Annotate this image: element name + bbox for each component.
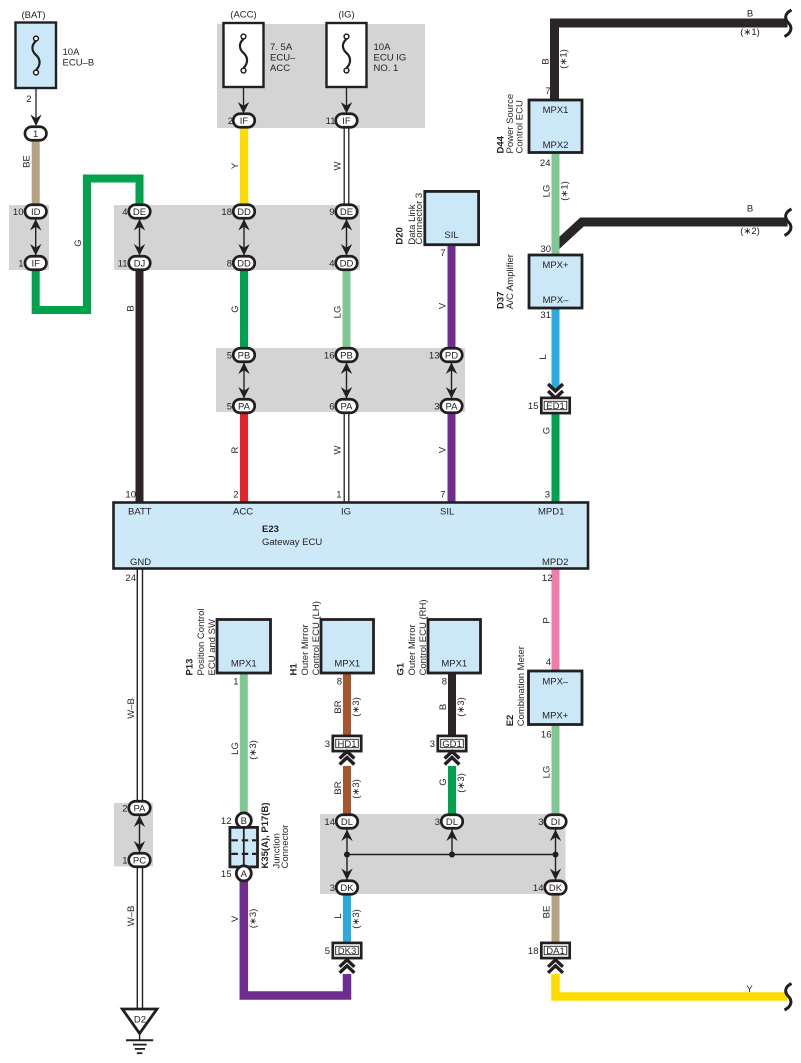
svg-text:G: G [438,778,449,785]
wire BE fuse BAT to ID [32,140,40,207]
svg-text:A: A [241,869,248,880]
label BR (*3) lower [333,779,362,799]
svg-text:IG: IG [341,507,351,518]
arrow DL3 to bus [446,830,457,855]
gray panel: connector band PA/PC [114,803,153,867]
junction dot left [344,852,350,858]
ground D2 [122,1009,157,1053]
svg-text:18: 18 [528,946,539,957]
svg-text:7: 7 [440,248,445,259]
connector oval DI pin3 [538,815,566,829]
svg-text:10: 10 [13,207,24,218]
connector oval DL pin3 [435,815,463,829]
wire G loop IF to DE [36,179,140,311]
ECU D37 A/C Amplifier [496,244,582,321]
svg-text:MPX1: MPX1 [231,659,257,670]
wire L (*3) DK to DK3 [343,893,351,944]
svg-text:IF: IF [342,116,351,127]
wire BR (*3) H1 to HD1 [343,672,351,737]
connector oval PC pin1 [122,853,150,867]
svg-text:BE: BE [542,906,553,919]
arrow DI3 to bus [550,830,561,855]
wire R PA to gateway ACC [240,411,248,504]
wire B (*1) to D44 MPX1 [555,23,788,101]
svg-text:LG: LG [542,185,553,198]
svg-text:11: 11 [326,116,336,127]
chevrons above ED1 [548,384,563,398]
svg-text:(∗3): (∗3) [456,697,467,717]
svg-text:13: 13 [429,351,440,362]
wire B DJ to gateway BATT [136,268,144,504]
svg-text:3: 3 [435,817,440,828]
svg-text:8: 8 [442,677,447,688]
svg-text:(BAT): (BAT) [21,10,45,21]
svg-text:MPD2: MPD2 [542,557,568,568]
connector oval IF pin2 [233,114,255,128]
svg-text:(∗3): (∗3) [351,909,362,929]
svg-text:MPX–: MPX– [542,677,569,688]
svg-text:4: 4 [329,259,334,270]
svg-text:Gateway ECU: Gateway ECU [262,537,322,548]
svg-text:DE: DE [133,207,146,218]
svg-text:PA: PA [446,402,459,413]
svg-text:R: R [230,446,241,453]
svg-text:3: 3 [545,490,550,501]
svg-text:PA: PA [238,402,251,413]
svg-text:5: 5 [325,946,330,957]
svg-text:DI: DI [551,817,561,828]
wire P gateway MPD2 to E2 [552,568,560,672]
fuse ACC [224,10,297,128]
svg-text:B: B [747,9,753,20]
svg-text:Control ECU (RH): Control ECU (RH) [418,599,429,675]
svg-text:14: 14 [324,817,335,828]
svg-text:9: 9 [329,207,334,218]
connector pair ID/IF arrows [30,219,41,256]
arrow DL14 to bus [341,830,352,855]
svg-text:W: W [333,445,344,454]
svg-text:PB: PB [238,351,251,362]
svg-text:SIL: SIL [440,507,454,518]
wire LG DD to PB [343,268,351,350]
wire BE DK to DA1 [552,893,560,944]
svg-text:LG: LG [333,306,344,319]
svg-text:PC: PC [133,856,146,867]
svg-text:BATT: BATT [128,507,152,518]
svg-text:DD: DD [340,259,354,270]
svg-text:(∗1): (∗1) [560,181,571,201]
svg-text:L: L [538,354,549,359]
svg-text:MPX–: MPX– [543,295,570,306]
fuse IG [326,10,407,128]
break symbol Y right edge [785,984,792,1011]
svg-text:W–B: W–B [126,906,137,927]
gray panel: connector band DE/DJ DD/DD DE/DD [114,205,360,270]
break symbol B2 right edge [785,209,792,236]
label B (*1) vertical [541,49,570,69]
svg-text:E23: E23 [262,524,279,535]
svg-text:G: G [542,427,553,434]
svg-text:DD: DD [237,259,251,270]
connector oval IF pin11 [336,114,358,128]
svg-text:24: 24 [540,158,551,169]
connector oval DE pin4 [122,205,150,219]
label B (*2) horizontal [740,204,760,238]
svg-text:G1: G1 [395,662,406,675]
svg-text:10: 10 [125,490,136,501]
svg-text:Connector: Connector [280,825,291,869]
svg-text:B: B [126,305,137,311]
svg-text:12: 12 [221,816,232,827]
svg-text:31: 31 [540,310,551,321]
label G (*3) [438,773,467,793]
connector pair PD/PA arrows [446,363,457,399]
wire G (*3) GD1 to DL [448,766,456,816]
wire B (*2) to D37 pin30 [557,222,788,246]
svg-text:MPX1: MPX1 [334,659,360,670]
svg-text:4: 4 [546,657,551,668]
svg-text:(∗3): (∗3) [456,773,467,793]
svg-text:ACC: ACC [270,63,290,74]
svg-text:L: L [333,913,344,918]
connector oval ID pin10 [13,205,47,219]
svg-text:10A: 10A [63,47,81,58]
connector pair PB/PA acc arrows [238,363,249,399]
wire G ED1 to gateway MPD1 [552,413,560,504]
svg-text:Combination Meter: Combination Meter [516,646,527,726]
connector oval DL pin14 [324,815,357,829]
svg-text:8: 8 [337,677,342,688]
svg-text:IF: IF [31,259,40,270]
label BR (*3) upper [333,697,362,717]
ECU E23 Gateway ECU [114,490,589,585]
svg-text:(∗3): (∗3) [351,779,362,799]
svg-text:NO. 1: NO. 1 [374,63,399,74]
splice box DA1 pin18 [528,943,570,958]
svg-text:DL: DL [341,817,353,828]
splice box GD1 pin3 [430,736,466,751]
svg-text:DD: DD [237,207,251,218]
svg-text:7: 7 [545,86,550,97]
svg-text:D2: D2 [134,1015,146,1026]
svg-text:3: 3 [330,883,335,894]
svg-text:14: 14 [533,883,544,894]
svg-text:5: 5 [227,402,232,413]
label B (*3) [438,697,467,717]
wire LG E2 MPX+ to DI [552,724,560,816]
connector oval PB pin5 [227,348,255,362]
svg-text:3: 3 [325,739,330,750]
svg-text:DK: DK [549,883,563,894]
svg-text:ACC: ACC [233,507,253,518]
svg-text:18: 18 [221,207,232,218]
label V (*3) [230,909,259,929]
connector pair DE/DD arrows [341,219,352,256]
svg-text:K35(A), P17(B): K35(A), P17(B) [260,803,271,869]
wire L D37 MPX- to ED1 [552,307,560,390]
svg-text:7: 7 [440,490,445,501]
splice box HD1 pin3 [325,736,361,751]
svg-text:7. 5A: 7. 5A [270,42,293,53]
wire Y DA1 to right edge [556,974,788,997]
connector oval DE pin9 [329,205,357,219]
fuse BAT [16,10,95,126]
svg-text:B: B [541,58,552,64]
svg-text:2: 2 [26,94,31,105]
svg-text:ID: ID [31,207,41,218]
chevrons below HD1 [340,752,355,765]
svg-text:LG: LG [230,742,241,755]
connector oval 1 (BAT) [25,127,47,141]
svg-text:DA1: DA1 [546,946,564,957]
svg-text:(IG): (IG) [338,10,354,21]
svg-text:PB: PB [340,351,353,362]
connector pair DE/DJ arrows [134,219,145,256]
svg-text:V: V [230,915,241,922]
svg-text:4: 4 [122,207,127,218]
svg-text:E2: E2 [505,715,516,727]
svg-text:1: 1 [18,259,23,270]
wire BR (*3) HD1 to DL [343,766,351,816]
svg-text:W–B: W–B [126,698,137,719]
svg-text:Y: Y [230,162,241,169]
svg-text:B: B [438,704,449,710]
svg-text:Outer Mirror: Outer Mirror [407,624,418,675]
svg-text:10A: 10A [374,42,392,53]
svg-text:Control ECU: Control ECU [515,100,526,153]
connector oval DK pin14 [533,881,566,895]
svg-text:Y: Y [746,984,753,995]
connector oval DD pin4 [329,256,357,270]
svg-text:1: 1 [122,856,127,867]
svg-text:Outer Mirror: Outer Mirror [300,624,311,675]
ECU G1 Outer Mirror Control ECU (RH) [395,599,480,687]
svg-text:2: 2 [233,490,238,501]
svg-text:SIL: SIL [444,230,458,241]
connector pair PB/PA ig arrows [341,363,352,399]
connector oval PD pin13 [429,348,462,362]
svg-text:MPX2: MPX2 [543,140,569,151]
svg-text:MPX1: MPX1 [543,105,569,116]
svg-text:11: 11 [118,259,128,270]
svg-text:V: V [438,446,449,453]
label LG (*3) p13 [230,740,259,760]
svg-text:15: 15 [528,401,539,412]
wire V PA to gateway SIL [448,411,456,504]
connector oval DJ pin11 [118,256,151,270]
svg-text:(∗2): (∗2) [740,226,760,237]
connector oval PA pin6 [329,399,357,413]
wire LG (*1) D44 MPX2 to D37 MPX+ [552,152,560,256]
svg-text:(∗1): (∗1) [559,49,570,69]
svg-text:GND: GND [130,557,151,568]
svg-text:ED1: ED1 [546,401,564,412]
junction connector K35(A) P17(B) [221,803,291,881]
svg-text:G: G [73,239,84,246]
ECU P13 Position Control ECU and SW [184,608,270,687]
svg-text:DK: DK [340,883,354,894]
arrow bus to DK14 [550,855,561,881]
svg-text:BR: BR [333,700,344,713]
wire G DD to PB [240,268,248,350]
svg-text:2: 2 [122,804,127,815]
svg-text:(∗3): (∗3) [248,909,259,929]
wire B (*3) G1 to GD1 [448,672,456,737]
chevrons below GD1 [445,752,460,765]
svg-text:MPX+: MPX+ [542,260,569,271]
connector oval PA pin2 [122,801,150,815]
gray panel: connector band ID/IF [9,205,49,270]
connector oval PB pin16 [324,348,357,362]
chevrons below DK3 [340,960,355,973]
wire W-B PC to ground D2 [137,865,142,1009]
gray panel: connector band PB/PA PD/PA [216,348,465,412]
connector oval PA pin5 [227,399,255,413]
svg-text:DE: DE [340,207,353,218]
svg-text:5: 5 [227,351,232,362]
label L (*3) [333,909,362,929]
svg-text:3: 3 [430,739,435,750]
svg-text:MPX1: MPX1 [441,659,467,670]
svg-text:Position Control: Position Control [196,608,207,675]
svg-text:8: 8 [227,259,232,270]
svg-text:3: 3 [538,817,543,828]
wire V (*3) junction A to DK3 [244,880,347,996]
svg-text:BR: BR [333,781,344,794]
junction dot right [553,852,559,858]
junction dot middle [449,852,455,858]
svg-text:V: V [438,302,449,309]
svg-text:B: B [747,204,753,215]
label B (*1) horizontal [740,9,760,39]
svg-text:24: 24 [125,573,136,584]
svg-text:P: P [542,617,553,623]
ECU H1 Outer Mirror Control ECU (LH) [288,601,373,687]
svg-text:G: G [230,305,241,312]
wire W-B gateway GND to PA [137,568,142,802]
svg-text:ECU–B: ECU–B [63,58,95,69]
svg-text:DL: DL [446,817,458,828]
label LG (*1) [542,181,571,201]
connector oval DD pin18 [221,205,254,219]
svg-text:3: 3 [434,402,439,413]
wire W PA to gateway IG [344,411,349,504]
ECU D20 Data Link Connector 3 [395,191,479,259]
svg-text:GD1: GD1 [442,739,462,750]
arrow bus to DK3 [341,855,352,881]
ECU E2 Combination Meter [505,646,582,740]
bus line DL-DL-DI [347,854,556,856]
svg-text:IF: IF [240,116,249,127]
svg-text:(ACC): (ACC) [230,10,256,21]
splice box ED1 pin15 [528,398,570,413]
svg-text:6: 6 [329,402,334,413]
gray panel: connector band DL/DK/DI [320,814,566,894]
svg-text:1: 1 [33,129,38,140]
svg-text:15: 15 [221,869,232,880]
connector oval PA pin3 [434,399,462,413]
wire Y fuse ACC to DD [240,126,248,207]
svg-text:D20: D20 [395,227,406,244]
gray panel: fuse block (ACC/IG) [217,24,425,128]
svg-text:(∗1): (∗1) [740,27,760,38]
svg-text:MPD1: MPD1 [538,507,564,518]
connector oval DD pin8 [227,256,255,270]
splice box DK3 pin5 [325,943,361,958]
svg-text:A/C Amplifier: A/C Amplifier [505,254,516,309]
svg-text:PA: PA [341,402,354,413]
svg-text:ECU IG: ECU IG [374,53,407,64]
svg-text:16: 16 [324,351,335,362]
svg-text:MPX+: MPX+ [542,711,569,722]
svg-text:PA: PA [134,804,147,815]
svg-text:BE: BE [22,155,33,168]
svg-text:PD: PD [445,351,458,362]
ECU D44 Power Source Control ECU [496,86,582,169]
svg-text:LG: LG [542,766,553,779]
svg-text:16: 16 [541,730,552,741]
svg-text:DJ: DJ [134,259,146,270]
svg-text:ECU and SW: ECU and SW [207,619,218,676]
wire V D20 SIL to PD [448,243,456,350]
connector oval DK pin3 [330,881,358,895]
svg-text:ECU–: ECU– [270,53,296,64]
svg-text:Control ECU (LH): Control ECU (LH) [311,601,322,675]
break symbol B1 right edge [785,10,792,37]
wire LG (*3) P13 to junction B [240,672,248,814]
svg-text:30: 30 [540,244,551,255]
svg-text:W: W [333,161,344,170]
svg-text:1: 1 [233,677,238,688]
svg-text:(∗3): (∗3) [351,697,362,717]
svg-text:1: 1 [336,490,341,501]
connector pair DD/DD arrows [238,219,249,256]
wire W fuse IG to DE [344,126,349,207]
svg-text:P13: P13 [184,659,195,676]
svg-text:(∗3): (∗3) [248,740,259,760]
svg-text:HD1: HD1 [337,739,356,750]
chevrons below DA1 [548,960,563,973]
svg-text:Connector 3: Connector 3 [414,193,425,245]
connector oval IF pin1 [18,256,46,270]
svg-text:12: 12 [542,573,553,584]
svg-text:DK3: DK3 [338,946,356,957]
svg-text:B: B [241,816,247,827]
connector pair PA/PC arrows [134,816,145,853]
svg-text:H1: H1 [288,663,299,676]
